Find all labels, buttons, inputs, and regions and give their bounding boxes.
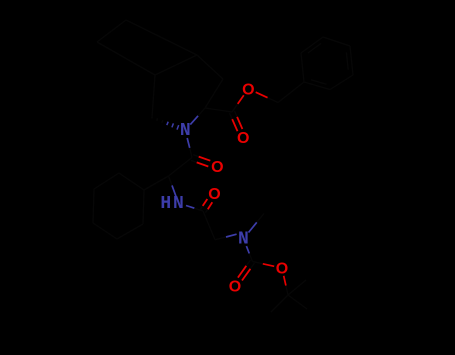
ester C=O double bond — [235, 111, 238, 117]
cyclohexyl ring — [143, 190, 144, 224]
svg-text:O: O — [242, 81, 254, 98]
bond N1-C2 — [190, 116, 198, 125]
svg-text:O: O — [237, 130, 249, 147]
bond C4-C5 — [176, 55, 197, 65]
bond O-CH2 benzyl — [256, 92, 268, 98]
svg-text:O: O — [211, 159, 223, 176]
bond C5-C6 — [154, 75, 156, 96]
tBu methyl 3 — [288, 288, 297, 296]
bond N2-methyl — [249, 222, 257, 232]
svg-text:H: H — [160, 194, 171, 214]
bond amide C - alpha C — [180, 158, 192, 167]
bond CH2 - N2 — [215, 237, 226, 240]
svg-text:N: N — [173, 194, 184, 214]
bond C3-C4 — [210, 67, 223, 79]
svg-text:O: O — [229, 279, 241, 296]
bond C2-C3 — [205, 94, 214, 109]
bond C2-ester C — [205, 108, 219, 110]
amide1 C=O double bond — [193, 155, 199, 157]
svg-text:O: O — [208, 186, 220, 203]
amide2 C=O double bond — [201, 206, 203, 210]
bond amide2 C - CH2 — [203, 211, 209, 225]
bond O-tBu — [284, 276, 286, 286]
benzene ring — [301, 53, 304, 82]
Boc C=O double bond — [250, 263, 254, 269]
bond alpha C - NH — [169, 176, 173, 185]
Boc C-O single bond — [253, 262, 263, 264]
bond NH - amide2 C — [186, 206, 194, 209]
bridge bond C5-C8 — [126, 59, 155, 76]
bond alpha C - cyclohexyl — [156, 176, 168, 183]
svg-text:N: N — [180, 121, 191, 141]
bridge bond C7-C4 — [126, 20, 162, 38]
ester C-O single bond — [232, 104, 238, 112]
bridge bond C8-C7 — [97, 31, 112, 42]
bond CH2-ipso — [278, 92, 291, 102]
bond N2-Boc C — [246, 246, 249, 253]
tBu methyl 2 — [288, 295, 298, 302]
hashed stereo bond C6-N1 — [151, 117, 154, 119]
bond N1-amide C — [187, 138, 190, 148]
svg-text:O: O — [276, 261, 288, 278]
tBu methyl 1 — [280, 295, 289, 304]
